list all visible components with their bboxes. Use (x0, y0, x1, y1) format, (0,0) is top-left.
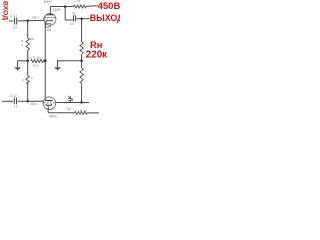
tube V1 cathode lead (45, 21, 47, 61)
wire lower R to V2 grid junction (27, 83, 29, 101)
svg-text:40к: 40к (46, 28, 52, 32)
tube V2 grid (44, 102, 55, 104)
wire anode V1 to top rail (50, 6, 65, 8)
wire anode junction down to Cр (65, 7, 73, 20)
node junction grid V2 (26, 100, 29, 103)
tube V1 anode lead (49, 6, 51, 14)
ground arrow right (54, 67, 61, 70)
svg-text:R2з: R2з (33, 64, 39, 68)
wire to bottom rail (81, 84, 83, 102)
svg-text:Сб: Сб (67, 107, 71, 111)
wire bottom rail (56, 102, 89, 104)
resistor Rк zigzag (74, 111, 87, 114)
wire Ra to 450В (86, 5, 97, 8)
svg-text:22к с: 22к с (30, 102, 38, 106)
wire input to C1 (9, 20, 14, 22)
resistor R lower-left zigzag (26, 76, 29, 84)
svg-text:7,5к: 7,5к (75, 0, 81, 3)
tube V1 grid (44, 17, 55, 19)
wire C2 to grid V2 (18, 100, 44, 102)
svg-text:0,47: 0,47 (11, 14, 18, 18)
node output junction (80, 17, 83, 20)
tube V1 envelope (44, 13, 56, 25)
wire junction C left to ground arrow (58, 61, 82, 68)
tube V2 grid tick (42, 101, 44, 103)
capacitor Ск leads (69, 100, 71, 102)
resistor Rн 220к zigzag (80, 42, 83, 56)
svg-text:Rн: Rн (90, 39, 103, 50)
node junction cathode V1 (44, 59, 47, 62)
svg-text:2М: 2М (30, 37, 35, 41)
capacitor Cр plates (74, 15, 76, 21)
resistor Rс grid leak zigzag (26, 38, 29, 52)
resistor R lower zigzag (80, 68, 83, 84)
resistor Rк1 4,7к zigzag (31, 60, 46, 63)
wire junction D left to ground arrow (18, 61, 28, 68)
node junction grid V1 (26, 19, 29, 22)
wire cathode V2 to Rк (48, 112, 74, 114)
wire to Ra (65, 6, 73, 8)
svg-text:ВЫХОД: ВЫХОД (90, 13, 120, 23)
svg-text:6Н9С: 6Н9С (44, 0, 53, 4)
tube V1 cathode (47, 20, 52, 21)
svg-text:340В: 340В (53, 8, 62, 12)
tube V2 cathode lead (47, 105, 49, 112)
tube V2 anode plate (45, 99, 53, 101)
wire Rс to junction D (27, 52, 29, 61)
svg-text:220к: 220к (86, 49, 107, 60)
tube V1 anode plate (46, 14, 53, 16)
tube V2 cathode (46, 104, 51, 105)
wire Ср to output (76, 18, 89, 20)
wire Rк right end (87, 112, 99, 114)
svg-text:1,0: 1,0 (13, 105, 18, 109)
svg-text:22к с: 22к с (32, 16, 40, 20)
node junction C (80, 59, 83, 62)
svg-text:Ср: Ср (72, 12, 76, 16)
tube V1 grid tick (43, 18, 45, 21)
node junction anode (64, 5, 67, 8)
resistor Ra 7,5к zigzag (74, 5, 87, 8)
wire bottom input (2, 100, 13, 102)
svg-text:0,47: 0,47 (10, 94, 17, 98)
capacitor C2 plates (14, 98, 16, 105)
capacitor Ск plates (68, 99, 73, 101)
wire output down to Rн (81, 20, 83, 42)
node bottom rail junction (80, 101, 83, 104)
svg-text:ВХОД: ВХОД (2, 1, 9, 20)
wire junction C down (81, 62, 83, 68)
capacitor C1 0,47 plates (15, 18, 17, 25)
svg-text:С4: С4 (70, 22, 74, 26)
svg-text:1,0: 1,0 (13, 25, 18, 29)
wire Rн to junction C (81, 56, 83, 61)
node junction D (26, 59, 29, 62)
svg-text:6Н9С: 6Н9С (49, 115, 58, 119)
tube V2 envelope (43, 97, 56, 110)
wire junction to Rс (27, 22, 29, 38)
wire C1 to grid V1 (18, 19, 44, 22)
capacitor Ск arrow (68, 96, 74, 101)
svg-text:450В: 450В (98, 1, 120, 12)
wire junction D down (27, 62, 29, 76)
label pin3 box (46, 24, 51, 28)
wire V1 cathode line to V2 anode (44, 62, 46, 101)
ground arrow left (14, 67, 21, 70)
